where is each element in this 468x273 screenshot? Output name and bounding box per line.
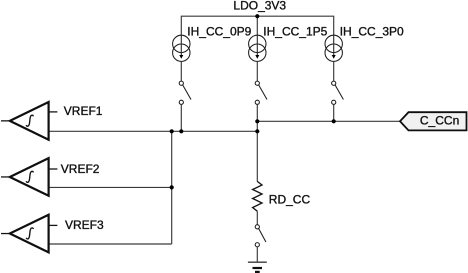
junction node (171.7,187.4)	[170, 185, 174, 189]
svg-text:RD_CC: RD_CC	[269, 192, 311, 206]
svg-text:LDO_3V3: LDO_3V3	[233, 0, 286, 13]
buffer VREF2	[1, 158, 57, 196]
junction node (181.3,131.3)	[179, 129, 183, 133]
svg-text:VREF3: VREF3	[65, 218, 104, 232]
buffer VREF3	[1, 215, 57, 253]
wire switch3 to node	[333, 104, 335, 121]
current source IH_CC_0P9	[173, 35, 190, 61]
wire LDO_3V3 bus	[181, 16, 333, 35]
svg-text:C_CCn: C_CCn	[420, 114, 459, 128]
junction node (171.7,131.3)	[170, 129, 174, 133]
wire left net (VREF1 output)	[49, 130, 258, 132]
ground	[248, 262, 267, 272]
wire switch1 to node	[180, 104, 182, 131]
junction on LDO_3V3 bus	[255, 14, 259, 18]
buffer VREF1	[1, 102, 57, 140]
wire source3 to switch3	[333, 61, 335, 81]
wire VREF2 output	[49, 186, 172, 188]
wire VREF vertical bus	[171, 131, 173, 244]
resistor RD_CC	[253, 181, 262, 211]
svg-text:VREF2: VREF2	[61, 162, 100, 176]
junction node (257.3,121.3)	[255, 119, 259, 123]
off-page connector C_CCn	[400, 112, 467, 130]
wire right net to C_CCn	[257, 120, 400, 122]
wire resistor to switch4	[256, 211, 258, 225]
svg-text:IH_CC_3P0: IH_CC_3P0	[340, 25, 404, 39]
current source IH_CC_1P5	[249, 35, 266, 61]
svg-text:VREF1: VREF1	[64, 104, 103, 118]
junction node (257.3,131.3)	[255, 129, 259, 133]
wire source1 to switch1	[180, 61, 182, 81]
wire VREF3 output	[49, 243, 172, 245]
svg-text:IH_CC_1P5: IH_CC_1P5	[263, 25, 327, 39]
wire switch4 to ground	[256, 247, 258, 262]
svg-text:IH_CC_0P9: IH_CC_0P9	[187, 25, 251, 39]
wire switch2 down through nodes to resistor	[256, 104, 258, 181]
wire source2 to switch2	[256, 61, 258, 81]
switch S4 (RD_CC to ground)	[255, 225, 266, 247]
current source IH_CC_3P0	[325, 35, 342, 61]
wire bus to middle source	[256, 16, 258, 35]
switch S1 (IH_CC_0P9 branch)	[179, 81, 191, 104]
switch S2 (IH_CC_1P5 branch)	[255, 81, 267, 104]
junction node (333.7,121.3)	[332, 119, 336, 123]
switch S3 (IH_CC_3P0 branch)	[332, 81, 344, 104]
